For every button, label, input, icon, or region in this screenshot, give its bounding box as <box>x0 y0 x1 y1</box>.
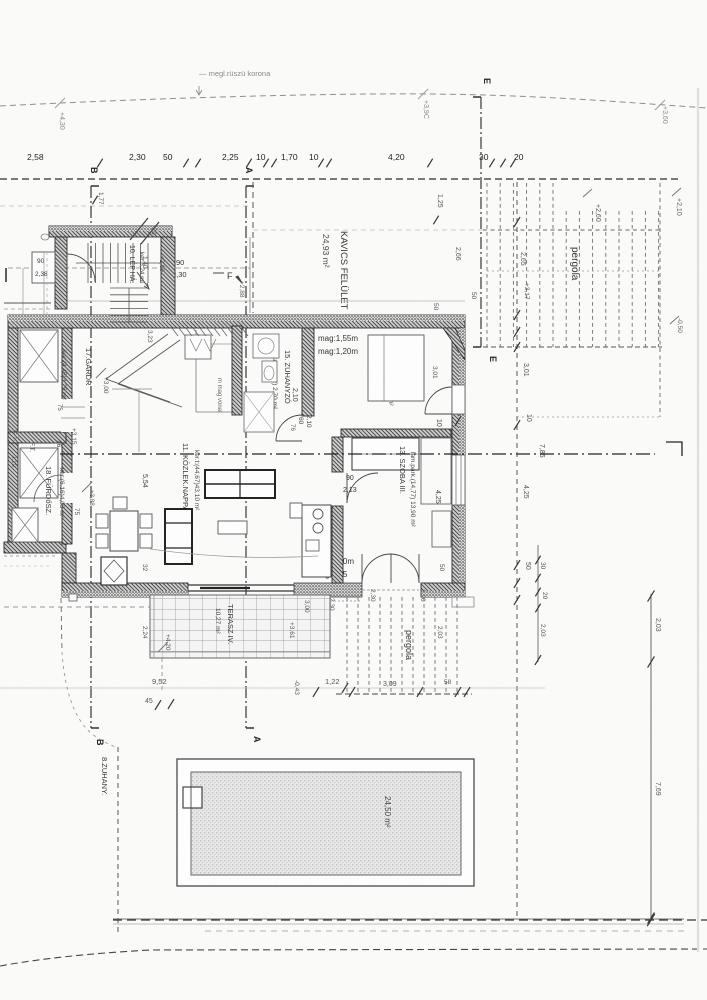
french door arcs <box>362 554 391 583</box>
wall stair left <box>55 237 67 309</box>
entry porch box <box>32 252 55 283</box>
wc <box>262 361 277 382</box>
stair diagonal marks <box>130 218 148 240</box>
solid dim line x538 <box>537 545 539 662</box>
faint construction line <box>0 687 545 689</box>
hall curve line <box>150 549 318 557</box>
hatch ticks under top wall <box>172 328 178 336</box>
kavics boundary dashed <box>252 182 254 313</box>
section label E bottom <box>473 346 481 348</box>
fireplace <box>101 557 127 585</box>
level mark +4,30 <box>55 98 65 108</box>
coffee table <box>218 521 247 534</box>
room 12 bed <box>368 335 424 401</box>
pool outer <box>177 759 474 886</box>
gallery void outline <box>195 330 197 412</box>
window X box gardrobe <box>20 330 58 382</box>
entry steps <box>4 302 51 304</box>
downpipe notch <box>69 594 77 601</box>
door gap bath <box>61 473 73 503</box>
wall stair right <box>161 237 175 315</box>
roof overhang line above top wall <box>60 300 465 302</box>
wall hall room13 low <box>332 506 343 583</box>
terrace grid <box>150 595 330 658</box>
wall interior horizontal <box>341 429 451 437</box>
section line horizontal <box>60 453 655 455</box>
dim 1,25 below A row <box>433 216 438 225</box>
level mark +2,60 <box>583 189 592 197</box>
window lines south <box>294 596 362 598</box>
sideboard dark <box>205 470 275 498</box>
window X box bath <box>20 448 58 498</box>
wall bottom west <box>62 583 188 597</box>
eaves dashed line <box>4 606 150 608</box>
bottom solid line <box>113 918 684 920</box>
pergola right boundary <box>659 183 661 417</box>
wall stair top <box>49 226 172 237</box>
hall chevron diagonal <box>106 334 168 379</box>
stair treads lower flight <box>110 287 148 289</box>
stair treads upper flight <box>87 243 89 283</box>
corner chamfer top right <box>443 328 465 360</box>
entry walkway lines <box>22 268 24 315</box>
door arc room13 to hall <box>347 473 378 503</box>
wall right <box>452 328 465 590</box>
wall hall room13 up <box>332 437 343 472</box>
wall bath bottom <box>4 542 66 553</box>
pergola top boundary <box>483 229 662 231</box>
chimney box <box>185 335 211 359</box>
washbasin <box>253 334 279 358</box>
bottom long dashed line <box>0 949 707 966</box>
section line E <box>480 97 482 347</box>
room13 small cabinet <box>432 511 451 547</box>
wall bottom east <box>421 583 465 597</box>
level mark +3,90 <box>418 89 428 99</box>
wall between gardrobe and bath <box>8 432 66 443</box>
ticks and labels on x517 <box>514 217 520 227</box>
bottom wall sill segment <box>294 583 362 597</box>
chairs <box>96 514 108 528</box>
left curve dashed to fence <box>61 598 62 652</box>
entrance door arc <box>67 254 95 282</box>
fence vertical dashed <box>117 747 119 934</box>
upper floor outline above stairs <box>249 237 251 313</box>
pergola field top-right stripes <box>486 183 488 347</box>
door arc room 12 <box>425 387 452 414</box>
wall lower left <box>62 553 76 589</box>
bottom gray line <box>113 923 684 925</box>
sofa dark <box>165 509 192 564</box>
faint dashed line left of kavics <box>0 205 250 207</box>
shower tray <box>244 392 274 432</box>
label -3,60 <box>96 368 106 378</box>
right scan edge line <box>697 88 699 952</box>
pergola bottom stripes <box>346 597 348 694</box>
terrain arrow <box>196 86 202 95</box>
closet room13 <box>352 438 419 470</box>
section line B <box>90 186 92 728</box>
dining table <box>110 511 138 551</box>
label +2,10 right edge <box>672 188 681 196</box>
wall interior vertical <box>302 328 314 416</box>
wall left <box>8 328 18 550</box>
bottom dashed dark line <box>113 919 707 921</box>
long dashed line x517 <box>516 182 518 918</box>
light dashed kavics-pergola line <box>253 229 483 231</box>
pergola mid dotted <box>487 270 660 272</box>
window right wall <box>452 455 465 505</box>
bottom light dashed <box>205 930 684 932</box>
right dim line 7,69 <box>650 594 652 920</box>
terrace sliding door <box>188 584 294 586</box>
property boundary dashed line <box>0 178 681 180</box>
pool ladder <box>183 787 202 808</box>
terrain dashed line (megl. terep) <box>0 94 707 108</box>
label -0,50 <box>670 316 679 324</box>
wall hall zuhanyzo <box>232 326 242 415</box>
pergola bottom boundary <box>483 346 662 348</box>
level mark +3,60 <box>655 100 665 110</box>
kitchen counter <box>302 505 331 577</box>
dotted h line y417 <box>517 416 660 418</box>
bottom arrow mark <box>647 914 655 926</box>
small X box lower <box>12 508 38 542</box>
interior marker F <box>213 272 224 274</box>
door gap hall-left wall <box>61 399 73 432</box>
top dimension ticks <box>97 159 102 168</box>
wall main top <box>8 315 465 328</box>
small circle top-left <box>41 234 49 240</box>
label 3,88 <box>82 482 92 492</box>
pool water <box>191 772 461 875</box>
corner step outline <box>452 597 474 607</box>
A line lower part handled above <box>161 658 163 690</box>
stair walk line arrow <box>137 272 149 289</box>
wall hall left upper <box>62 328 72 544</box>
kitchen stove piece <box>290 503 302 518</box>
pergola bottom boundary <box>336 693 472 695</box>
section line A <box>245 186 247 728</box>
dotted lines below bath wall <box>4 555 56 557</box>
room13 wardrobe <box>421 438 451 504</box>
door zuhanyzo <box>276 415 302 441</box>
